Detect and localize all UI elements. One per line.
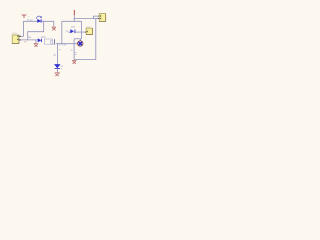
wire stub down to GND2 (35, 40, 37, 43)
junction rail/main right run (74, 18, 75, 19)
wire ground row right and riser to J2 pin2 (74, 19, 99, 60)
connector J3 (mid-right, 1-pin) (85, 26, 92, 34)
net label VCC (greeked) (27, 15, 29, 18)
wire diode D3 cathode to GND3 (57, 69, 59, 73)
component LS1 (boxed buzzer/crystal body) (44, 39, 55, 44)
wire J1 pin2 row to component LS1 (19, 39, 39, 41)
wire mid row from LS1 right pin to lamp DS1 (56, 43, 77, 45)
diode D4 (right row) (71, 30, 75, 34)
wire lamp DS1 top stub (79, 39, 81, 41)
power port (bar style, top-right) (73, 10, 75, 15)
pin number 2 of J2 (100, 18, 101, 19)
diode D3 (bottom, pointing down) (54, 64, 60, 68)
wire riser x61.8 up to y21 segment (61, 21, 63, 43)
connector J1 (left, 2-pin) (12, 33, 21, 44)
pin number 1 of J3 (87, 31, 88, 32)
wire jog up to J2 pin1 (93, 16, 99, 19)
wire bottom column to diode D3 anode (57, 44, 59, 65)
designator label of DS1 beside descent (greeked) (75, 51, 77, 54)
power port VCC (bar style, top-left) (22, 15, 27, 18)
pin number labels below riser x61.8 (greeked) (59, 44, 60, 45)
wire diode D4 left lead (68, 31, 71, 33)
pin stubs of J1 (19, 36, 21, 40)
ground GND3 (earth bottom middle) (55, 73, 61, 76)
connector J2 (top-right, 2-pin) (98, 14, 106, 22)
junction riser x61.8 on mid row (61, 43, 62, 44)
value label left of diode D1 (greeked) (30, 19, 33, 22)
designator label left of LS1 (greeked) (28, 37, 31, 38)
right plate bar of LS1 (54, 39, 56, 44)
designator label of J3 (86, 25, 90, 28)
designator label of J1 (12, 33, 17, 34)
junction diode row on rail descent (81, 31, 82, 32)
label below J1 pin2 wire (greeked) (24, 40, 26, 43)
wire J1 pin1 to riser (19, 35, 23, 37)
diode D1 (on feed line, with curved arrow) (36, 16, 42, 23)
wire diode D4 cathode to J3 pin (75, 31, 86, 33)
value label above diode D2 (greeked) (41, 36, 45, 37)
pin stubs of J2 (98, 16, 100, 19)
label above diode D4 (greeked) (71, 26, 75, 27)
ground GND2 (earth below pin2 row) (34, 44, 39, 47)
diode D2 (series before component LS1) (38, 39, 42, 43)
pin number 1 of J2 (100, 15, 101, 16)
designator label of D3 beside bottom column (greeked) (53, 53, 55, 56)
pin number 1 of J1 (17, 35, 18, 36)
junction at T x43.7 on feed line (43, 21, 44, 22)
wire stub from node A down to GND1 (53, 21, 55, 26)
junction bottom column on mid row (57, 43, 58, 44)
wire rail descent x81.5 (81, 21, 83, 39)
junction lamp-left on descent x74.1 (74, 43, 75, 44)
lamp DS1 (circle with X) (77, 41, 83, 47)
pin stub of J3 (85, 31, 86, 33)
ground GND1 (earth below node A stub) (52, 27, 57, 30)
wire y21 segment to rail corner (62, 20, 82, 22)
wire jog left at y38.8 (74, 38, 81, 40)
wire riser up to VCC feed line and feed line to node A (24, 21, 54, 36)
wire descent x74.1 to ground row (73, 39, 75, 60)
wire main right run to J2 pin area (74, 18, 99, 20)
ground GND4 (earth below ground row left end) (72, 60, 77, 63)
wire from T-junction x43.7 down, left, and down to pin2 row (28, 21, 44, 40)
value label right of diode D3 (greeked) (61, 65, 63, 66)
pin number 2 of J1 (17, 39, 18, 40)
junction riser x27.7 on pin2 row (27, 39, 28, 40)
label left of diode D4 lead (greeked) (66, 30, 68, 33)
wire rail top vertical (73, 15, 75, 21)
